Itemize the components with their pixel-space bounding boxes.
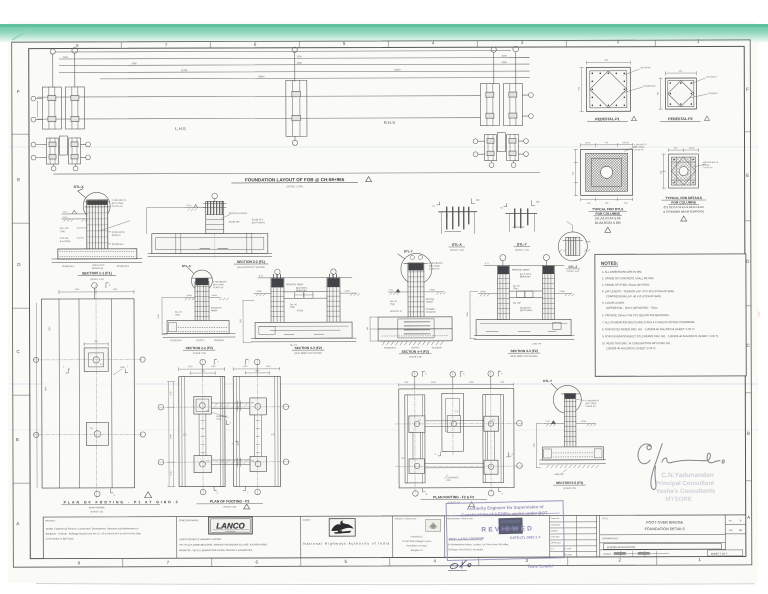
plan F23 side bubbles <box>412 420 522 496</box>
plan F23 top bubbles <box>412 371 503 393</box>
section 1-1 bolt annotation <box>112 200 127 208</box>
svg-text:of Karnataka on BOT basis: of Karnataka on BOT basis <box>46 537 75 540</box>
plan F23 footing squares <box>409 416 499 475</box>
svg-text:M2 B DTL-R: M2 B DTL-R <box>390 311 402 313</box>
svg-text:SECTION 2-2 (F2): SECTION 2-2 (F2) <box>185 346 212 350</box>
twin A left dim line <box>240 300 254 342</box>
svg-text:2. GRADE OF CONCRETE SHALL BE: 2. GRADE OF CONCRETE SHALL BE M35. <box>602 276 654 280</box>
svg-text:CLASS 4.6: CLASS 4.6 <box>585 405 596 408</box>
svg-text:SECTION 4-4 (F3): SECTION 4-4 (F3) <box>402 350 429 354</box>
svg-text:Ø12@ DTS: Ø12@ DTS <box>211 308 222 310</box>
plan P1 grid bubbles <box>33 357 145 497</box>
svg-text:3300: 3300 <box>297 63 303 65</box>
approval table <box>550 515 597 557</box>
svg-text:DTL-Y: DTL-Y <box>543 379 552 383</box>
svg-text:H. SOM: H. SOM <box>565 548 572 550</box>
svg-text:CLASS 4.6: CLASS 4.6 <box>429 267 440 270</box>
svg-text:CB Nagar, Kolar-563101, Karnat: CB Nagar, Kolar-563101, Karnataka. <box>448 548 484 551</box>
svg-text:150 PCC: 150 PCC <box>196 340 205 342</box>
svg-text:A: A <box>16 521 19 526</box>
twin B footing <box>474 319 574 339</box>
svg-text:Principal Consultant: Principal Consultant <box>655 480 714 487</box>
svg-text:PEDESTAL REINF.: PEDESTAL REINF. <box>229 212 248 215</box>
svg-text:-240%: -240% <box>186 295 192 297</box>
svg-text:Ø12@150-B: Ø12@150-B <box>117 266 130 268</box>
svg-text:FOR COLUMNS: FOR COLUMNS <box>671 201 696 205</box>
svg-text:-240%: -240% <box>256 291 262 293</box>
grid bubble axis 1 (left pier) <box>50 48 78 87</box>
drawing number box <box>603 543 721 549</box>
concessionaire text <box>179 538 269 552</box>
svg-text:Ø12@150: Ø12@150 <box>432 347 442 349</box>
svg-text:W. SOM: W. SOM <box>565 554 572 556</box>
section 5-5 column <box>561 393 579 447</box>
twin B bottom annotation <box>532 343 542 346</box>
stamp header text <box>461 504 548 517</box>
twin B left dim line <box>467 292 478 339</box>
svg-text:A0: A0 <box>739 528 743 532</box>
section 1-1 footing block <box>52 249 142 263</box>
notes title <box>601 261 619 266</box>
svg-text:-240%: -240% <box>344 291 350 293</box>
section 4-4 column <box>404 263 428 322</box>
grid numbers top <box>76 38 700 48</box>
svg-text:PEDESTAL REINF.: PEDESTAL REINF. <box>286 283 304 286</box>
svg-text:DTL-X: DTL-X <box>182 264 191 268</box>
elevation truss chord lines <box>37 51 539 175</box>
plan P2 left dim column <box>167 382 175 487</box>
twin B connecting beam <box>509 291 542 298</box>
DTL-X label <box>449 243 465 252</box>
svg-text:(NO LONG): (NO LONG) <box>112 203 124 205</box>
svg-text:(SCALE 1:10): (SCALE 1:10) <box>515 249 529 252</box>
typ fdn A square with crosshatch <box>581 149 633 195</box>
svg-text:Ø12@150-A: Ø12@150-A <box>62 265 75 268</box>
plan P1 top bubble <box>92 283 111 299</box>
svg-text:DTL-Z: DTL-Z <box>569 265 578 269</box>
section 1-1 title <box>78 271 116 281</box>
svg-text:-240%: -240% <box>211 295 217 297</box>
LANCO logo <box>209 517 253 534</box>
section 5-5 detail bubble DTL-Y <box>543 379 581 414</box>
right pier group lower columns <box>484 133 518 161</box>
svg-text:Team Leader: Team Leader <box>527 563 554 569</box>
svg-text:(SCALE 1:25): (SCALE 1:25) <box>193 352 206 355</box>
svg-text:(BOTH WAY): (BOTH WAY) <box>520 309 533 312</box>
svg-text:REVIEWED: REVIEWED <box>481 525 534 533</box>
typ fdn B warning triangle <box>681 216 687 221</box>
NHAI eagle emblem <box>329 519 355 537</box>
svg-text:6. PROVIDE 100mm THK PCC BELO: 6. PROVIDE 100mm THK PCC BELOW FOUNDATIO… <box>602 313 670 317</box>
svg-text:-240%: -240% <box>580 421 586 423</box>
plan P2 right tall rectangle <box>233 376 280 486</box>
section 2-2 pedestal column <box>203 201 226 233</box>
svg-text:C.N.Yadunandan: C.N.Yadunandan <box>661 472 713 479</box>
svg-text:Stk 60: Stk 60 <box>480 290 487 293</box>
typ fdn A dim band bottom <box>581 198 633 205</box>
svg-text:CLASS 4.6: CLASS 4.6 <box>213 286 224 289</box>
svg-text:F: F <box>17 89 20 94</box>
svg-text:154.5: 154.5 <box>585 142 591 144</box>
section 2-2 F2 mid annotations <box>175 308 222 317</box>
section 2-2 F2 detail bubble <box>182 264 213 291</box>
svg-text:NOTES:: NOTES: <box>601 261 619 266</box>
plan P2 footing squares <box>194 396 267 472</box>
svg-text:4- M20 BOLTS: 4- M20 BOLTS <box>585 400 599 402</box>
svg-text:Ø12@ SPFB: Ø12@ SPFB <box>112 232 125 234</box>
section 4-4 level marks <box>388 289 446 295</box>
section 2-2 F2 bottom annotations <box>170 339 224 342</box>
typ fdn B left dim <box>661 154 666 188</box>
pedestal P2 square <box>665 78 696 109</box>
svg-text:(NO LONG): (NO LONG) <box>213 284 224 286</box>
svg-text:1190299-40-NHL/DFC01 (SHEET-1: 1190299-40-NHL/DFC01 (SHEET-1 OF 7). <box>606 346 656 350</box>
svg-text:F.G.L: F.G.L <box>63 217 69 219</box>
svg-text:(Typ): (Typ) <box>60 231 65 233</box>
svg-text:FOUNDATION LAYOUT OF FOB @ CH:: FOUNDATION LAYOUT OF FOB @ CH:69+965 <box>245 177 345 182</box>
section 4-4 bolt annotation <box>429 263 443 271</box>
stamp ref/date <box>449 535 541 541</box>
svg-text:Ø8 DWS: Ø8 DWS <box>426 299 435 301</box>
svg-text:B: B <box>747 431 750 436</box>
plan P2 grid bubbles sides <box>158 404 289 495</box>
svg-text:DTL-X: DTL-X <box>452 243 463 247</box>
right pier lower bubbles <box>473 139 528 168</box>
svg-text:(154.5): (154.5) <box>622 142 629 144</box>
svg-text:H.O.: H.O. <box>551 548 555 550</box>
plan F23 section flags <box>422 452 513 496</box>
svg-text:-240%: -240% <box>429 289 435 291</box>
svg-text:Bangalore - Hoskote - Mulbagal: Bangalore - Hoskote - Mulbagal Section f… <box>46 532 142 535</box>
grid tick marks bottom band <box>123 557 657 567</box>
svg-text:(ELEV REINF. NOT SHOWN): (ELEV REINF. NOT SHOWN) <box>511 356 539 358</box>
svg-text:TYPICAL FDN DETAILS: TYPICAL FDN DETAILS <box>665 196 702 200</box>
right pier group upper columns <box>480 84 522 126</box>
typ fdn A label <box>589 207 627 225</box>
section 5-5 level marks <box>544 420 596 426</box>
notes border <box>595 254 746 376</box>
typ fdn A warning triangle <box>605 227 611 232</box>
twin A bottom annotation <box>290 345 298 347</box>
svg-text:DTL-Y: DTL-Y <box>404 249 413 253</box>
section 4-4 base hatch <box>380 341 450 345</box>
left pier lower bubbles <box>31 142 90 171</box>
svg-text:CLASS 4.6: CLASS 4.6 <box>703 166 714 169</box>
svg-text:REINF.: REINF. <box>211 310 218 312</box>
scale row <box>603 551 669 557</box>
svg-text:7TH, PLAZA ADMIN BUILDING, AMA: 7TH, PLAZA ADMIN BUILDING, AMANI BYRASAN… <box>179 543 268 546</box>
plan P2 centrelines <box>159 359 290 494</box>
plan P2 left tall rectangle <box>179 377 225 487</box>
svg-text:(SCALE 1:25): (SCALE 1:25) <box>90 278 104 281</box>
svg-text:(Typ): (Typ) <box>216 419 221 421</box>
DTL-Z annotations <box>567 241 591 273</box>
section 4-4 title <box>399 350 431 359</box>
svg-text:MYSORE: MYSORE <box>665 496 691 503</box>
elevation span dimension texts <box>63 56 508 79</box>
svg-text:SPACE: SPACE <box>426 301 434 304</box>
svg-text:DIA. 420: DIA. 420 <box>60 227 69 230</box>
svg-text:Ø12@150: Ø12@150 <box>426 312 436 314</box>
svg-text:(C1,C2,C4 C6 & D1,D2,D4 & D5: (C1,C2,C4 C6 & D1,D2,D4 & D5 <box>664 205 705 209</box>
plan F23 label <box>421 495 487 507</box>
twin B grid bubbles <box>500 254 550 265</box>
plan F23 centrelines <box>395 372 521 494</box>
svg-text:(Typ): (Typ) <box>390 304 395 306</box>
svg-text:CLASS 4.6: CLASS 4.6 <box>634 148 645 151</box>
svg-text:Dia. 40: Dia. 40 <box>175 312 182 314</box>
svg-text:PROJECT CONSULTANT :: PROJECT CONSULTANT : <box>395 517 418 520</box>
svg-text:(Typ): (Typ) <box>513 288 518 290</box>
independent consultant cell <box>447 517 510 551</box>
svg-text:DTL-X: DTL-X <box>74 185 85 189</box>
svg-text:CLIENT :: CLIENT : <box>303 520 312 522</box>
svg-text:B1,B2,B3,B4 & B8): B1,B2,B3,B4 & B8) <box>595 221 621 225</box>
svg-text:PLAN FOOTING - F2 & F3: PLAN FOOTING - F2 & F3 <box>433 495 474 499</box>
svg-text:B: B <box>16 437 19 442</box>
svg-text:LANCO: LANCO <box>216 521 245 530</box>
section 2-2 F2 level squiggles <box>184 295 229 300</box>
svg-text:(DR): (DR) <box>447 480 452 482</box>
plan P2 top dim bands <box>179 366 280 375</box>
project cell <box>45 520 142 540</box>
svg-text:L.H.S: L.H.S <box>175 126 186 131</box>
section 4-4 bottom annotations <box>384 346 442 349</box>
svg-text:(SCALE 1:10): (SCALE 1:10) <box>567 270 580 273</box>
pedestal P2 label <box>660 116 709 121</box>
section 5-5 left dim line <box>533 423 544 467</box>
section 2-2 F2 title <box>183 346 215 355</box>
svg-text:R.H.S: R.H.S <box>384 120 395 125</box>
section 2-2 F2 left dim line <box>158 298 184 335</box>
handwritten initials <box>448 560 471 570</box>
svg-text:COMPRESSION LAP- 40 X Ø (2 DIA: COMPRESSION LAP- 40 X Ø (2 DIA OF BAR) <box>606 294 661 298</box>
plan F23 outer rectangle <box>399 389 514 488</box>
plan P1 upper sq dims <box>84 341 108 346</box>
svg-text:Aravind B.G.: Aravind B.G. <box>411 535 424 538</box>
svg-text:ASSIGNED: ASSIGNED <box>551 523 561 526</box>
svg-text:Ø12@150-A: Ø12@150-A <box>384 346 396 349</box>
typ fdn B square <box>669 154 699 188</box>
twin B title <box>508 349 540 358</box>
svg-text:Ø12@150: Ø12@150 <box>708 93 718 95</box>
elevation warning triangle <box>366 177 372 182</box>
left pier grid bubbles west <box>31 96 42 122</box>
plan P2 top bubbles <box>200 359 260 376</box>
svg-text:DRAWING NO :: DRAWING NO : <box>602 537 619 540</box>
section 4-4 left dim band <box>367 317 378 341</box>
svg-text:#23,4th Main,Vidaygiri Layout,: #23,4th Main,Vidaygiri Layout, <box>402 540 432 543</box>
plan F23 top dim band <box>399 382 514 387</box>
svg-text:5000: 5000 <box>502 62 508 64</box>
plan P1 outer rectangle <box>36 299 134 488</box>
typ fdn A dim band top <box>581 142 633 147</box>
svg-text:-240%: -240% <box>559 291 565 293</box>
svg-text:TYPICAL FDN DTLS: TYPICAL FDN DTLS <box>592 207 624 211</box>
section 1-1 detail bubble DTL-X <box>74 185 111 220</box>
stamp ink blot <box>498 518 522 535</box>
svg-text:5. CLEAR COVER :: 5. CLEAR COVER : <box>602 301 626 305</box>
section 1-1 pedestal column with anchor bolts <box>85 200 110 249</box>
grid bubble right pier <box>491 46 519 83</box>
section 1-1 bottom annotations <box>62 265 130 270</box>
twin A grid bubbles <box>275 269 336 277</box>
typ fdn B corner dots <box>673 159 693 183</box>
plan F23 connecting beams <box>413 421 495 468</box>
svg-text:DATE:(T)..0592 2 4: DATE:(T)..0592 2 4 <box>510 535 541 540</box>
svg-text:REINFORC: REINFORC <box>520 277 531 279</box>
plan P2 annotations <box>183 412 275 436</box>
svg-text:PLAN OF FOOTING - P2: PLAN OF FOOTING - P2 <box>210 499 250 503</box>
typ fdn B label <box>662 196 706 214</box>
svg-text:SHEET 7 OF 7: SHEET 7 OF 7 <box>711 553 728 556</box>
svg-text:SECTION 3-3 (F2): SECTION 3-3 (F2) <box>294 346 321 350</box>
grid bubble mid pier <box>292 47 298 145</box>
section 4-4 footing pedestal <box>378 317 452 341</box>
pedestal P1 label <box>587 116 636 121</box>
section 2-2 F2 column <box>192 278 212 322</box>
svg-text:SECTION 5-5 (F4): SECTION 5-5 (F4) <box>556 481 583 485</box>
svg-text:rev.: rev. <box>729 519 733 522</box>
svg-text:F: F <box>746 87 749 92</box>
svg-text:3200: 3200 <box>297 56 303 58</box>
svg-text:HosurBhavi 1st steps,: HosurBhavi 1st steps, <box>406 544 428 547</box>
stamp border <box>446 501 564 561</box>
svg-text:F.G.L: F.G.L <box>187 205 193 207</box>
svg-text:(SCALE 1:25): (SCALE 1:25) <box>409 355 422 358</box>
twin A columns <box>271 274 340 323</box>
svg-text:3. GRADE OF STEEL SHALL BE Fe: 3. GRADE OF STEEL SHALL BE Fe500. <box>602 283 650 287</box>
svg-text:Design, Engineering, Finance,: Design, Engineering, Finance, Constructi… <box>46 527 139 530</box>
svg-text:REINFORC: REINFORC <box>296 290 307 292</box>
teal scanner band at top <box>0 24 768 42</box>
notes text lines <box>602 269 719 350</box>
svg-text:LANCO HOSKOTE HIGHWAY LIMITED: LANCO HOSKOTE HIGHWAY LIMITED <box>179 538 222 541</box>
DTL-Y label <box>514 243 530 252</box>
plan P1 label <box>62 492 178 514</box>
plan F23 right tall rect <box>483 395 504 483</box>
svg-text:(NO LONG): (NO LONG) <box>585 403 596 405</box>
svg-text:APPROVED: APPROVED <box>551 541 562 544</box>
title block outer box <box>43 515 746 559</box>
title cell <box>600 518 726 550</box>
svg-text:4. LAP LENGTH : TENSION LAP-: 4. LAP LENGTH : TENSION LAP- 50 X Ø (2.3… <box>602 289 674 293</box>
svg-text:T.O.L: T.O.L <box>63 211 69 213</box>
svg-text:5000: 5000 <box>132 63 138 65</box>
twin A footing <box>251 322 356 342</box>
svg-text:PEDESTAL-P2: PEDESTAL-P2 <box>668 117 693 121</box>
svg-text:GROW CENTRE: GROW CENTRE <box>89 507 105 509</box>
svg-text:(NO LONG): (NO LONG) <box>429 266 440 268</box>
svg-text:(SCALE 1:30): (SCALE 1:30) <box>223 505 236 508</box>
section 2-2 title <box>234 260 268 269</box>
typ fdn B dim band top <box>669 148 699 152</box>
plan P1 dim annotation <box>45 325 126 391</box>
svg-text:DTL-Y: DTL-Y <box>517 243 528 247</box>
svg-text:(20+20)mm: (20+20)mm <box>640 67 651 69</box>
twin A connecting beam <box>284 292 327 299</box>
svg-text:(BAR)-W: (BAR)-W <box>112 234 122 237</box>
section 2-2 F2 footing <box>163 320 235 337</box>
svg-text:-2/3%: -2/3% <box>585 241 591 243</box>
section 2-2 level marks left <box>147 205 206 234</box>
svg-text:8. FOR NOTES REFER DRG. NO. :: 8. FOR NOTES REFER DRG. NO. : 1190299-40… <box>602 327 695 331</box>
svg-text:Ø12@150: Ø12@150 <box>214 340 224 342</box>
svg-text:(FooTING): (FooTING) <box>60 241 71 243</box>
svg-text:3200: 3200 <box>63 57 69 59</box>
plan P1 top dim band <box>59 289 134 294</box>
svg-text:Yasha's Consultants: Yasha's Consultants <box>656 488 716 495</box>
typ fdn A left dim band <box>573 149 578 195</box>
svg-text:Ø12@150-A: Ø12@150-A <box>112 243 125 246</box>
twin A level squiggles <box>254 291 360 296</box>
svg-text:Ø12@: Ø12@ <box>297 310 303 312</box>
section 5-5 bottom annotation <box>555 469 567 476</box>
svg-text:(23.5): (23.5) <box>689 148 695 150</box>
section 1-1 annotations left <box>60 227 125 246</box>
svg-text:9. FOR FOUNDATION BOLT DTLS: 9. FOR FOUNDATION BOLT DTLS REFER DRG. N… <box>602 334 719 338</box>
svg-text:(SCALE 1:25): (SCALE 1:25) <box>90 510 103 513</box>
svg-text:4- M20 BOLTS: 4- M20 BOLTS <box>213 281 227 283</box>
svg-text:Ø12@150-A: Ø12@150-A <box>170 339 182 342</box>
faint scan lines <box>10 146 758 148</box>
section 5-5 footing slab <box>539 447 605 464</box>
grid numbers bottom <box>78 557 702 565</box>
plan P1 footing square upper <box>84 348 108 372</box>
svg-text:INDEPENDENT CONSULTANT :: INDEPENDENT CONSULTANT : <box>447 517 475 520</box>
svg-text:ANCHOR BOLTS: ANCHOR BOLTS <box>703 161 719 164</box>
svg-text:DRAWN: DRAWN <box>551 529 558 532</box>
plan F23 middle rect F3 <box>442 393 464 451</box>
rev cells <box>725 519 746 534</box>
svg-text:16750: 16750 <box>181 70 188 72</box>
pink scan mark <box>758 312 759 317</box>
section 2-2 grid bubble <box>212 193 218 201</box>
svg-text:A: A <box>747 515 750 520</box>
consultant grey text <box>655 472 716 503</box>
svg-text:P2 BARS: P2 BARS <box>426 308 435 311</box>
svg-text:Banglore-72: Banglore-72 <box>411 549 424 552</box>
mid pier column <box>286 80 307 140</box>
svg-text:Ø12@ 200: Ø12@ 200 <box>229 221 240 223</box>
svg-text:Project No.: Project No. <box>551 517 560 520</box>
svg-text:(SCALE 1:100): (SCALE 1:100) <box>287 185 303 188</box>
svg-text:PEDESTAL-P1: PEDESTAL-P1 <box>595 117 620 121</box>
grid tick marks right band <box>744 132 751 481</box>
plan P2 connecting beams <box>199 401 262 467</box>
svg-text:(ELEVATION NOT SHOWN): (ELEVATION NOT SHOWN) <box>237 266 265 269</box>
section 2-2 F2 bolt annotation <box>213 281 227 289</box>
plan P1 section flags <box>63 366 129 497</box>
project consultant cell <box>395 517 441 552</box>
signature ink <box>638 443 724 489</box>
plan P2 label <box>197 499 263 509</box>
svg-text:SCALE :: SCALE : <box>603 553 613 556</box>
twin B ground line <box>484 263 564 266</box>
section 2-2 centreline <box>214 234 216 259</box>
svg-text:Engineering: Engineering <box>225 531 236 533</box>
plan P1 footing square lower <box>86 422 108 445</box>
svg-text:L-Bar -P3: L-Bar -P3 <box>532 343 542 346</box>
svg-text:SECTION 1-1 (F1): SECTION 1-1 (F1) <box>82 271 113 275</box>
right pier grid bubbles east <box>522 93 533 119</box>
svg-text:3200: 3200 <box>502 56 508 58</box>
twin A annotations <box>286 283 308 312</box>
pedestal P2 rebar dots <box>670 82 693 105</box>
twin A ground line <box>258 275 352 278</box>
svg-text:CHECKED: CHECKED <box>551 536 560 538</box>
section 1-1 level marks <box>62 210 88 221</box>
